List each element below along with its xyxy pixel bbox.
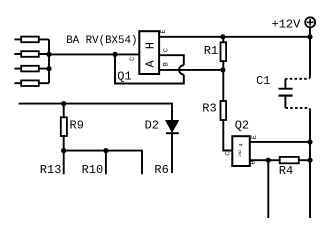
- svg-text:R13: R13: [40, 163, 62, 177]
- svg-text:R4: R4: [279, 164, 293, 178]
- svg-text:E: E: [160, 29, 167, 33]
- svg-text:H: H: [144, 42, 158, 49]
- svg-text:B: B: [250, 161, 257, 165]
- svg-text:+12V: +12V: [272, 18, 302, 32]
- svg-text:C1: C1: [256, 74, 270, 88]
- svg-text:R3: R3: [202, 102, 216, 116]
- svg-text:R9: R9: [70, 119, 84, 133]
- svg-text:R1: R1: [204, 44, 218, 58]
- svg-text:R6: R6: [154, 163, 168, 177]
- svg-text:2N2: 2N2: [239, 149, 243, 157]
- svg-text:A: A: [144, 59, 158, 67]
- svg-text:R10: R10: [82, 163, 104, 177]
- svg-text:C: C: [163, 48, 170, 52]
- svg-text:C: C: [224, 152, 231, 156]
- svg-text:Q1: Q1: [117, 69, 131, 83]
- svg-text:C: C: [129, 57, 136, 61]
- svg-text:Q2: Q2: [235, 119, 249, 133]
- svg-text:BA RV(BX54): BA RV(BX54): [66, 35, 137, 47]
- svg-text:D2: D2: [145, 119, 159, 133]
- svg-text:B: B: [162, 62, 169, 66]
- svg-text:E: E: [251, 135, 258, 139]
